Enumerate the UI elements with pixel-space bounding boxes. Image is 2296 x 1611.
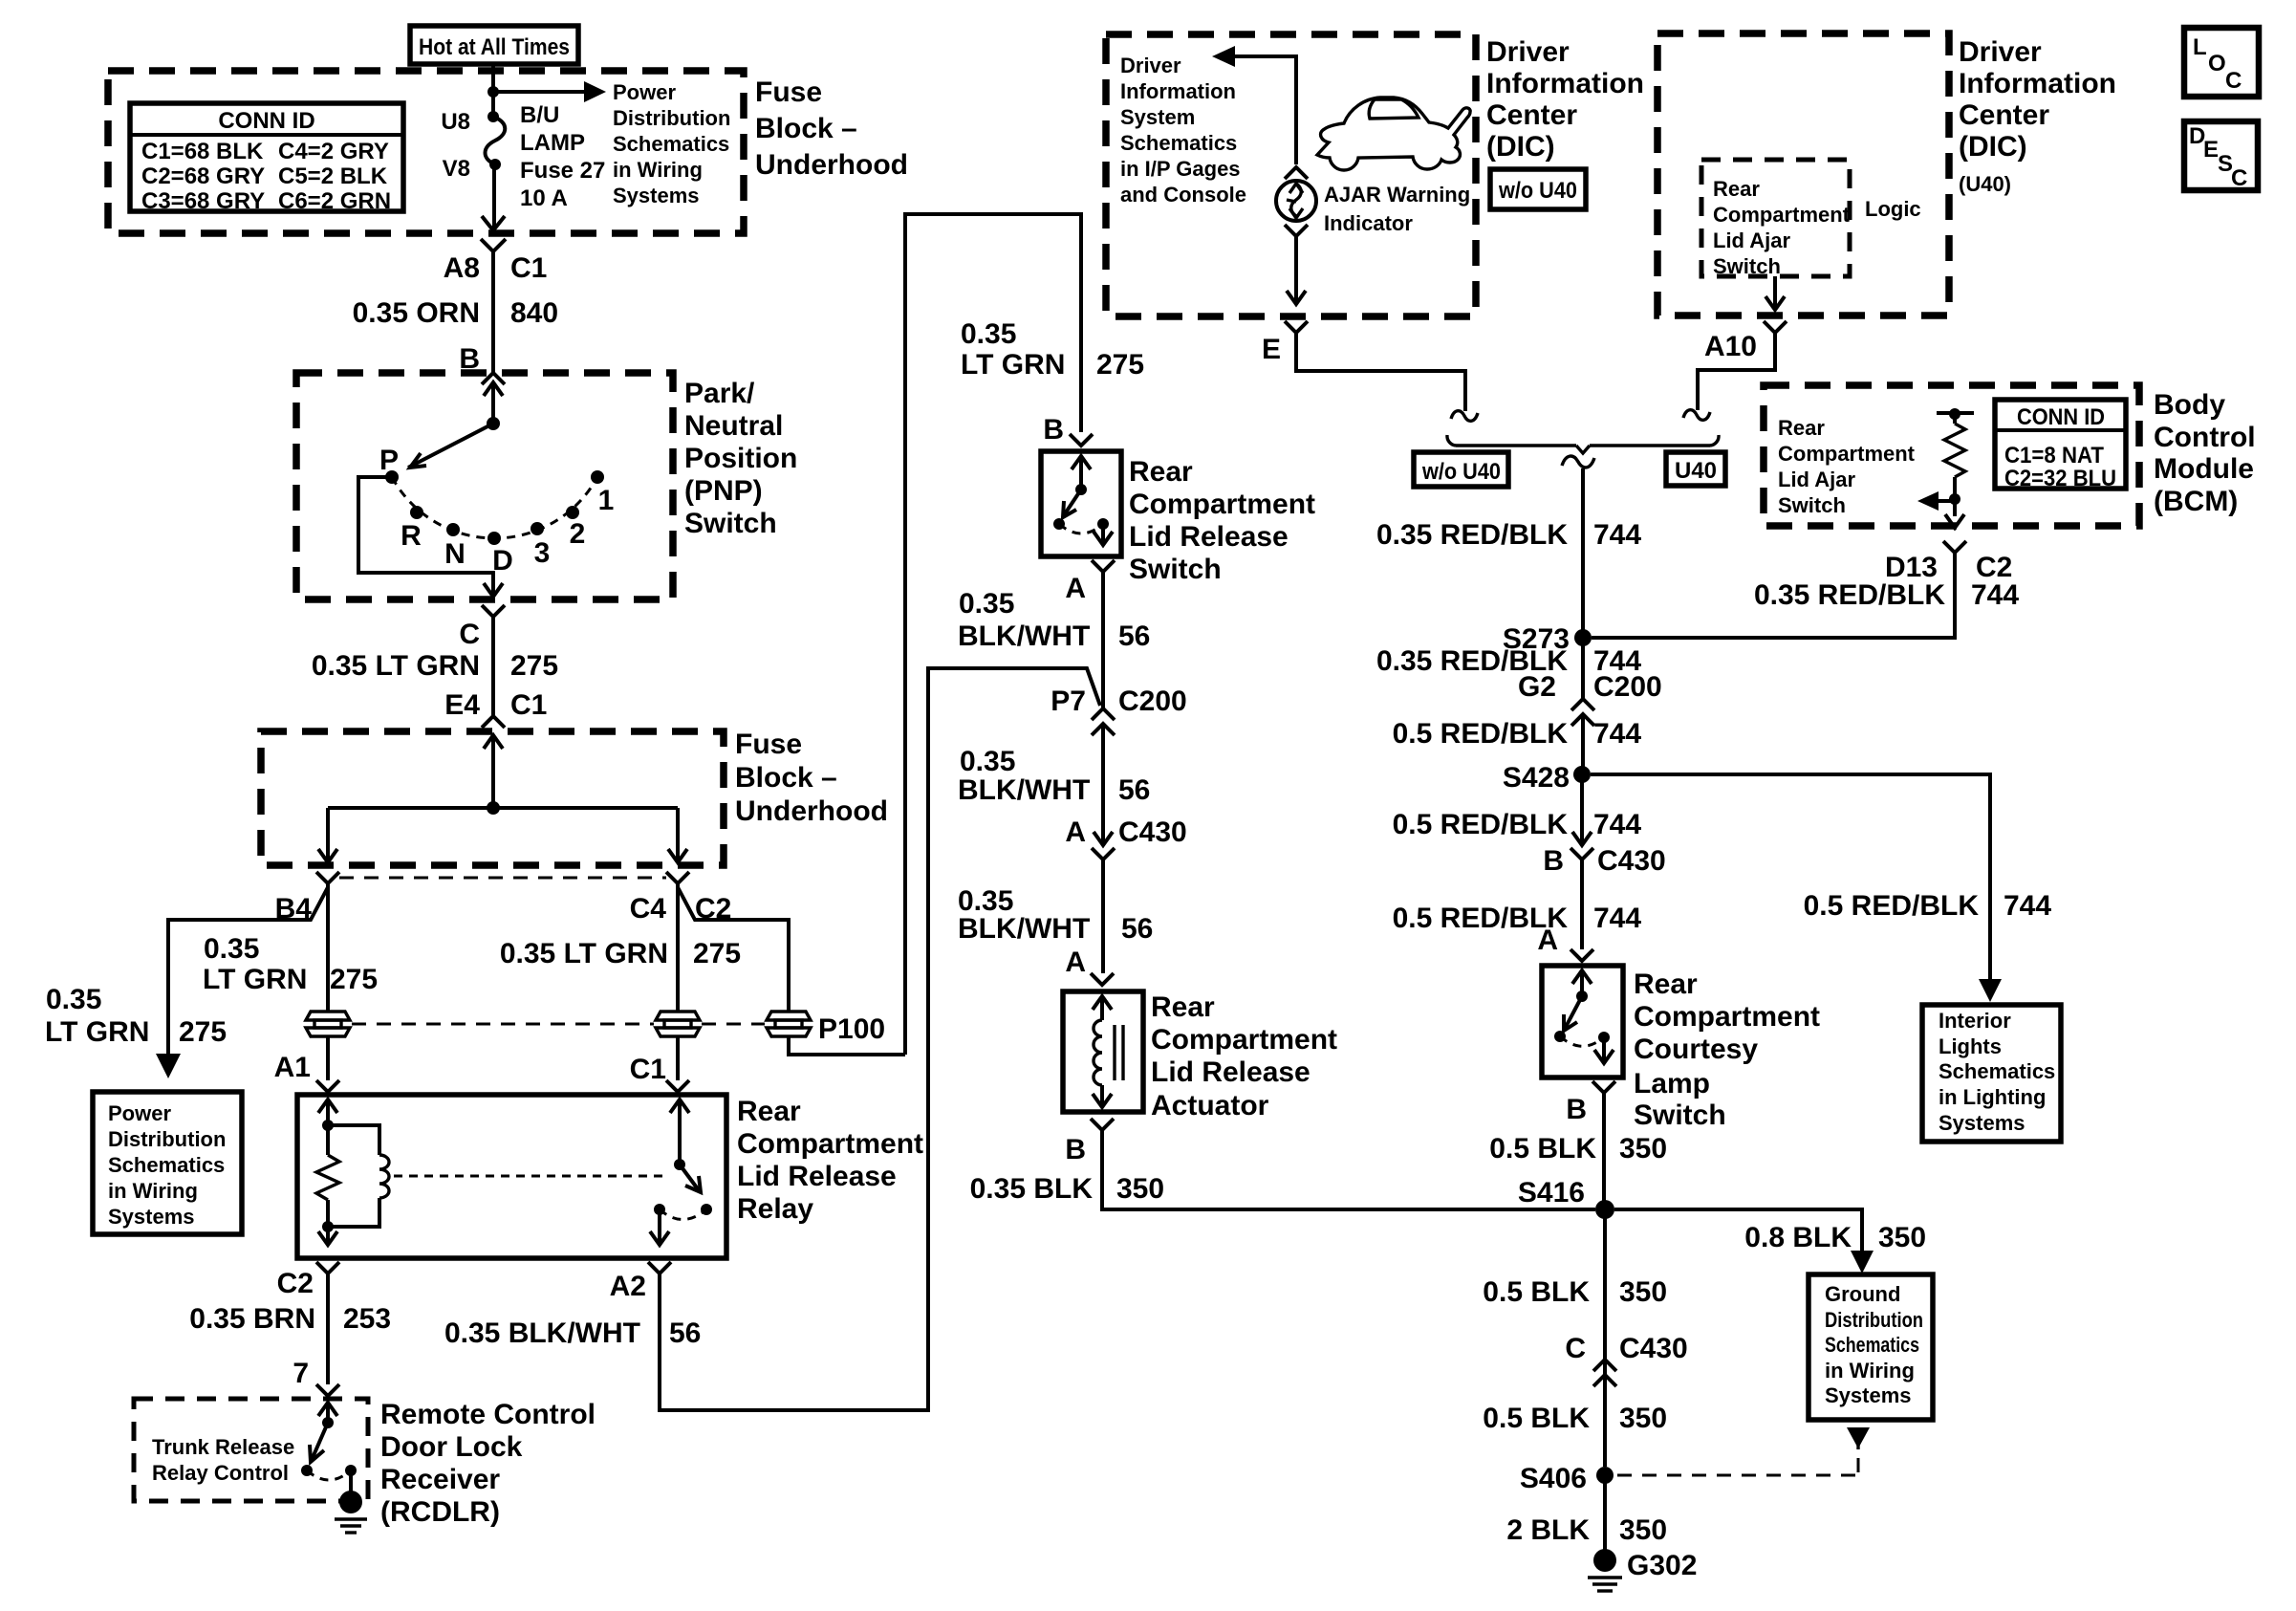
svg-text:w/o U40: w/o U40 xyxy=(1421,459,1501,485)
svg-text:Distribution: Distribution xyxy=(1825,1308,1923,1332)
svg-text:P: P xyxy=(379,445,399,476)
svg-text:0.5 BLK: 0.5 BLK xyxy=(1483,1403,1590,1434)
svg-text:BLK/WHT: BLK/WHT xyxy=(958,913,1090,945)
svg-text:Switch: Switch xyxy=(1129,554,1222,585)
svg-text:Logic: Logic xyxy=(1865,197,1921,221)
svg-text:P100: P100 xyxy=(818,1013,885,1045)
svg-text:C200: C200 xyxy=(1118,686,1187,717)
svg-text:C4: C4 xyxy=(630,893,667,925)
svg-text:S428: S428 xyxy=(1503,762,1570,794)
svg-text:0.5 RED/BLK: 0.5 RED/BLK xyxy=(1393,718,1569,750)
svg-text:275: 275 xyxy=(510,650,558,682)
svg-text:A: A xyxy=(1065,573,1086,604)
svg-text:0.35 ORN: 0.35 ORN xyxy=(353,297,480,329)
svg-text:CONN ID: CONN ID xyxy=(218,108,314,134)
svg-text:253: 253 xyxy=(343,1303,391,1335)
svg-text:Schematics: Schematics xyxy=(1825,1333,1919,1357)
svg-text:Information: Information xyxy=(1120,79,1236,103)
svg-text:Fuse: Fuse xyxy=(755,76,822,108)
svg-text:C: C xyxy=(459,619,480,650)
svg-text:C2: C2 xyxy=(277,1268,314,1299)
svg-text:0.35: 0.35 xyxy=(960,746,1015,777)
svg-text:E: E xyxy=(2203,137,2219,163)
svg-text:B/U: B/U xyxy=(520,102,559,128)
svg-text:350: 350 xyxy=(1619,1276,1667,1308)
svg-text:0.35 BLK: 0.35 BLK xyxy=(970,1173,1094,1205)
svg-text:Door Lock: Door Lock xyxy=(380,1431,523,1463)
svg-text:Systems: Systems xyxy=(613,184,700,207)
svg-text:0.35 BRN: 0.35 BRN xyxy=(189,1303,315,1335)
svg-text:56: 56 xyxy=(1118,774,1150,806)
svg-text:10 A: 10 A xyxy=(520,185,568,211)
svg-text:Compartment: Compartment xyxy=(1634,1001,1820,1033)
svg-text:840: 840 xyxy=(510,297,558,329)
svg-text:Power: Power xyxy=(108,1101,171,1125)
svg-text:P7: P7 xyxy=(1051,686,1086,717)
svg-text:CONN ID: CONN ID xyxy=(2017,404,2105,430)
svg-text:A: A xyxy=(1065,947,1086,978)
svg-text:0.35: 0.35 xyxy=(46,984,101,1015)
svg-text:56: 56 xyxy=(669,1317,701,1349)
svg-text:C1: C1 xyxy=(510,252,547,284)
svg-text:Switch: Switch xyxy=(1634,1099,1726,1131)
svg-text:Driver: Driver xyxy=(1120,54,1181,77)
svg-text:Distribution: Distribution xyxy=(108,1127,226,1151)
svg-text:Control: Control xyxy=(2154,422,2256,453)
svg-text:275: 275 xyxy=(179,1016,227,1048)
svg-text:in Lighting: in Lighting xyxy=(1939,1085,2046,1109)
svg-text:0.35 RED/BLK: 0.35 RED/BLK xyxy=(1754,579,1945,611)
svg-text:C430: C430 xyxy=(1597,845,1666,877)
svg-text:G302: G302 xyxy=(1627,1550,1697,1581)
svg-text:Compartment: Compartment xyxy=(1151,1024,1337,1056)
svg-text:Schematics: Schematics xyxy=(1939,1059,2055,1083)
svg-text:V8: V8 xyxy=(443,156,470,182)
svg-text:Driver: Driver xyxy=(1959,36,2042,68)
svg-text:E: E xyxy=(1262,334,1281,365)
svg-text:744: 744 xyxy=(1593,903,1641,934)
svg-text:System: System xyxy=(1120,105,1195,129)
svg-text:Courtesy: Courtesy xyxy=(1634,1034,1758,1065)
svg-text:A10: A10 xyxy=(1704,331,1757,362)
svg-text:C1=8 NAT: C1=8 NAT xyxy=(2004,443,2104,468)
svg-text:Hot at All Times: Hot at All Times xyxy=(419,34,570,60)
svg-text:Fuse 27: Fuse 27 xyxy=(520,158,605,184)
svg-text:Interior: Interior xyxy=(1939,1009,2011,1033)
svg-text:Schematics: Schematics xyxy=(1120,131,1237,155)
svg-text:Lid Release: Lid Release xyxy=(1129,521,1289,553)
svg-text:0.8 BLK: 0.8 BLK xyxy=(1744,1222,1852,1253)
svg-text:C5=2 BLK: C5=2 BLK xyxy=(278,163,388,189)
svg-text:0.35: 0.35 xyxy=(204,933,259,965)
svg-text:Information: Information xyxy=(1959,68,2116,99)
svg-text:Trunk Release: Trunk Release xyxy=(152,1435,294,1459)
svg-text:C2=32 BLU: C2=32 BLU xyxy=(2004,466,2116,491)
svg-text:Remote Control: Remote Control xyxy=(380,1399,596,1430)
svg-text:Position: Position xyxy=(684,443,797,474)
svg-text:Center: Center xyxy=(1959,99,2049,131)
svg-text:744: 744 xyxy=(1593,519,1641,551)
svg-text:in I/P Gages: in I/P Gages xyxy=(1120,157,1241,181)
svg-text:Lamp: Lamp xyxy=(1634,1068,1710,1099)
svg-text:Rear: Rear xyxy=(1129,456,1193,488)
svg-text:S406: S406 xyxy=(1520,1463,1587,1494)
svg-text:C3=68 GRY: C3=68 GRY xyxy=(141,188,265,214)
svg-text:744: 744 xyxy=(1971,579,2019,611)
svg-text:Lid Release: Lid Release xyxy=(1151,1056,1310,1088)
svg-text:A2: A2 xyxy=(610,1271,646,1302)
svg-text:56: 56 xyxy=(1118,620,1150,652)
svg-text:Distribution: Distribution xyxy=(613,106,730,130)
svg-text:Lights: Lights xyxy=(1939,1034,2002,1058)
svg-text:BLK/WHT: BLK/WHT xyxy=(958,774,1090,806)
svg-text:Center: Center xyxy=(1486,99,1577,131)
svg-text:Fuse: Fuse xyxy=(735,729,802,760)
svg-text:in Wiring: in Wiring xyxy=(1825,1359,1915,1382)
svg-text:Module: Module xyxy=(2154,453,2254,485)
svg-text:Actuator: Actuator xyxy=(1151,1090,1269,1121)
svg-text:B: B xyxy=(1566,1094,1587,1125)
svg-text:A: A xyxy=(1065,816,1086,848)
svg-text:U40: U40 xyxy=(1675,458,1717,484)
svg-text:LT GRN: LT GRN xyxy=(961,349,1065,381)
svg-text:C4=2 GRY: C4=2 GRY xyxy=(278,139,389,164)
svg-text:C2=68 GRY: C2=68 GRY xyxy=(141,163,265,189)
svg-text:(BCM): (BCM) xyxy=(2154,486,2238,517)
svg-text:350: 350 xyxy=(1878,1222,1926,1253)
svg-text:N: N xyxy=(444,538,466,570)
svg-text:56: 56 xyxy=(1121,913,1153,945)
svg-text:A1: A1 xyxy=(274,1052,311,1083)
svg-text:Compartment: Compartment xyxy=(1129,489,1315,520)
svg-text:C1: C1 xyxy=(630,1054,666,1085)
svg-text:744: 744 xyxy=(1593,718,1641,750)
svg-text:Park/: Park/ xyxy=(684,378,755,409)
svg-text:A8: A8 xyxy=(444,252,480,284)
svg-text:Schematics: Schematics xyxy=(613,132,729,156)
svg-text:0.35 LT GRN: 0.35 LT GRN xyxy=(312,650,480,682)
svg-text:0.5 BLK: 0.5 BLK xyxy=(1483,1276,1590,1308)
svg-text:C1: C1 xyxy=(510,689,547,721)
svg-text:2: 2 xyxy=(570,518,586,550)
svg-text:Underhood: Underhood xyxy=(755,149,908,181)
svg-text:Indicator: Indicator xyxy=(1324,211,1413,235)
svg-text:C: C xyxy=(1565,1333,1586,1364)
svg-text:Receiver: Receiver xyxy=(380,1464,500,1495)
svg-text:LT GRN: LT GRN xyxy=(45,1016,149,1048)
svg-text:Relay: Relay xyxy=(737,1193,813,1225)
svg-text:C430: C430 xyxy=(1619,1333,1688,1364)
svg-text:Block –: Block – xyxy=(735,762,837,794)
svg-text:in Wiring: in Wiring xyxy=(108,1179,198,1203)
svg-text:B: B xyxy=(1543,845,1564,877)
svg-text:0.5 RED/BLK: 0.5 RED/BLK xyxy=(1804,890,1980,922)
svg-text:C200: C200 xyxy=(1593,671,1662,703)
svg-text:Compartment: Compartment xyxy=(1778,442,1916,466)
svg-text:Neutral: Neutral xyxy=(684,410,783,442)
svg-text:(U40): (U40) xyxy=(1959,172,2011,196)
svg-text:1: 1 xyxy=(598,485,615,516)
svg-text:0.5 RED/BLK: 0.5 RED/BLK xyxy=(1393,809,1569,840)
svg-text:Switch: Switch xyxy=(1713,254,1781,278)
svg-text:Systems: Systems xyxy=(1939,1111,2025,1135)
svg-text:(RCDLR): (RCDLR) xyxy=(380,1496,500,1528)
svg-text:Lid Release: Lid Release xyxy=(737,1161,897,1192)
svg-text:D: D xyxy=(492,545,513,577)
svg-text:Body: Body xyxy=(2154,389,2225,421)
svg-text:Rear: Rear xyxy=(1713,177,1760,201)
svg-text:Ground: Ground xyxy=(1825,1282,1900,1306)
svg-text:U8: U8 xyxy=(441,109,470,135)
svg-text:Compartment: Compartment xyxy=(1713,203,1851,227)
svg-text:Switch: Switch xyxy=(684,508,777,539)
svg-text:A: A xyxy=(1537,925,1558,956)
svg-text:(PNP): (PNP) xyxy=(684,475,763,507)
svg-text:Underhood: Underhood xyxy=(735,795,888,827)
svg-text:0.35 RED/BLK: 0.35 RED/BLK xyxy=(1376,519,1568,551)
svg-text:744: 744 xyxy=(1593,809,1641,840)
svg-text:275: 275 xyxy=(693,938,741,969)
svg-text:0.35 LT GRN: 0.35 LT GRN xyxy=(500,938,668,969)
svg-text:2 BLK: 2 BLK xyxy=(1506,1514,1590,1546)
svg-text:E4: E4 xyxy=(444,689,480,721)
svg-text:0.5 BLK: 0.5 BLK xyxy=(1489,1133,1596,1165)
svg-text:w/o U40: w/o U40 xyxy=(1498,178,1577,204)
svg-text:L: L xyxy=(2193,34,2207,60)
svg-text:in Wiring: in Wiring xyxy=(613,158,703,182)
svg-text:350: 350 xyxy=(1619,1133,1667,1165)
svg-text:C1=68 BLK: C1=68 BLK xyxy=(141,139,264,164)
svg-text:7: 7 xyxy=(292,1358,309,1389)
svg-text:Compartment: Compartment xyxy=(737,1128,923,1160)
svg-text:350: 350 xyxy=(1619,1514,1667,1546)
svg-text:S416: S416 xyxy=(1518,1177,1585,1208)
svg-text:0.35 BLK/WHT: 0.35 BLK/WHT xyxy=(444,1317,640,1349)
svg-text:Block –: Block – xyxy=(755,113,857,144)
svg-text:(DIC): (DIC) xyxy=(1486,131,1555,163)
svg-text:(DIC): (DIC) xyxy=(1959,131,2027,163)
svg-text:Systems: Systems xyxy=(108,1205,195,1229)
svg-text:Lid Ajar: Lid Ajar xyxy=(1778,468,1856,491)
svg-text:744: 744 xyxy=(2004,890,2051,922)
svg-text:B: B xyxy=(1065,1134,1086,1165)
svg-text:Rear: Rear xyxy=(1778,416,1825,440)
svg-text:350: 350 xyxy=(1619,1403,1667,1434)
svg-text:Rear: Rear xyxy=(737,1096,801,1127)
svg-text:O: O xyxy=(2208,51,2226,76)
svg-text:0.35: 0.35 xyxy=(959,588,1014,620)
svg-text:LAMP: LAMP xyxy=(520,130,585,156)
svg-text:Switch: Switch xyxy=(1778,493,1846,517)
svg-text:G2: G2 xyxy=(1518,671,1556,703)
svg-text:0.35: 0.35 xyxy=(961,318,1016,350)
svg-text:Relay Control: Relay Control xyxy=(152,1461,289,1485)
svg-text:C: C xyxy=(2231,165,2247,191)
svg-text:275: 275 xyxy=(1096,349,1144,381)
svg-text:Information: Information xyxy=(1486,68,1644,99)
svg-text:C430: C430 xyxy=(1118,816,1187,848)
svg-text:Systems: Systems xyxy=(1825,1383,1912,1407)
svg-text:LT GRN: LT GRN xyxy=(203,964,307,995)
svg-text:275: 275 xyxy=(330,964,378,995)
svg-text:Power: Power xyxy=(613,80,676,104)
svg-text:Schematics: Schematics xyxy=(108,1153,225,1177)
svg-text:AJAR Warning: AJAR Warning xyxy=(1324,183,1470,207)
svg-text:Driver: Driver xyxy=(1486,36,1570,68)
svg-text:and Console: and Console xyxy=(1120,183,1246,207)
svg-text:Lid Ajar: Lid Ajar xyxy=(1713,229,1791,252)
svg-text:B: B xyxy=(1043,414,1064,446)
svg-text:C: C xyxy=(2225,68,2242,94)
svg-text:Rear: Rear xyxy=(1151,991,1215,1023)
svg-text:3: 3 xyxy=(534,537,551,569)
svg-text:C6=2 GRN: C6=2 GRN xyxy=(278,188,391,214)
svg-text:Rear: Rear xyxy=(1634,969,1698,1000)
svg-text:R: R xyxy=(401,520,422,552)
svg-text:BLK/WHT: BLK/WHT xyxy=(958,620,1090,652)
svg-text:350: 350 xyxy=(1116,1173,1164,1205)
